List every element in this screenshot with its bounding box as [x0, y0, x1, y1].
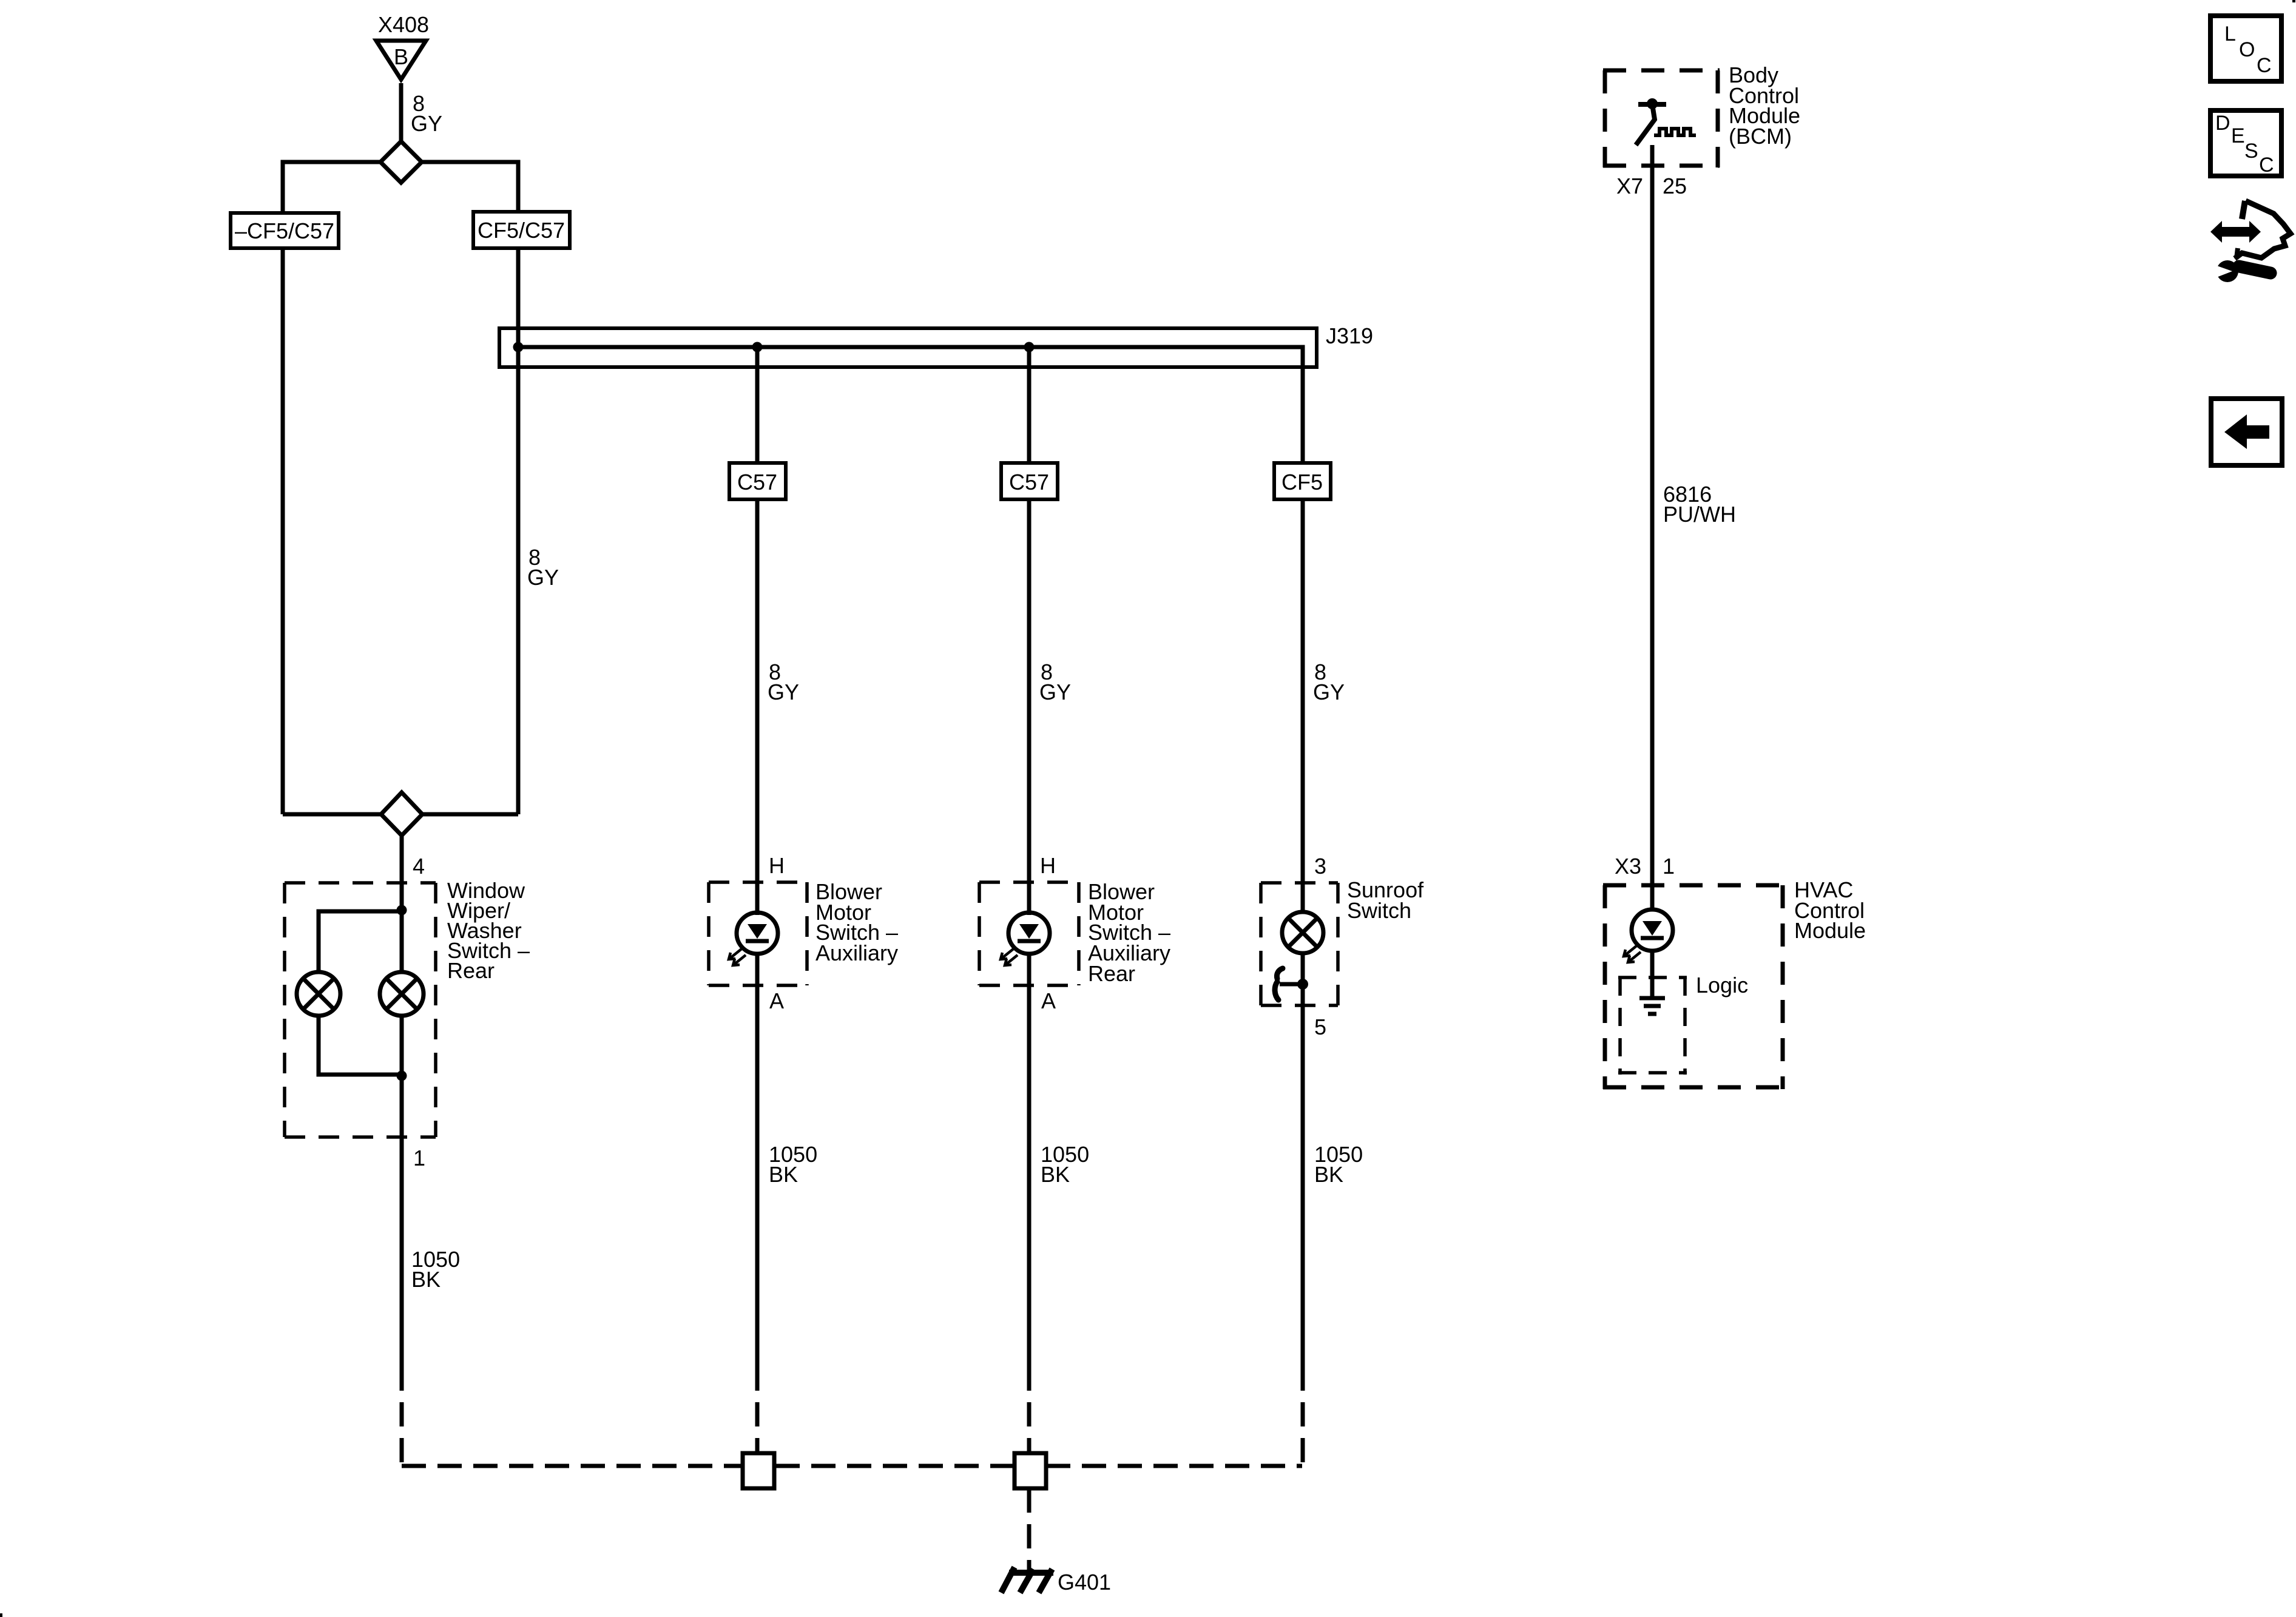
splice square ground bus 2 — [1015, 1453, 1046, 1488]
blower motor switch - auxiliary rear (dashed box) — [979, 882, 1079, 985]
svg-text:Auxiliary: Auxiliary — [815, 940, 898, 965]
splice J319 bus bar — [499, 328, 1317, 369]
svg-text:C: C — [2257, 54, 2272, 77]
ground G401 symbol — [1001, 1567, 1053, 1593]
connector CF5 (sunroof switch) — [1274, 463, 1331, 499]
label 1050 BK (branch 1) — [769, 1142, 817, 1187]
label 8 GY (branch 1) — [768, 660, 799, 704]
label 1050 BK (window wiper wire) — [411, 1247, 460, 1292]
svg-text:GY: GY — [1313, 680, 1345, 704]
connector X408 (triangle B) — [376, 12, 429, 79]
wire BCM to HVAC control module — [1650, 145, 1655, 911]
svg-text:–CF5/C57: –CF5/C57 — [235, 218, 334, 243]
svg-text:D: D — [2215, 112, 2230, 135]
sunroof switch (dashed box) — [1261, 883, 1338, 1005]
wire ground bus segment between squares — [775, 1464, 1013, 1468]
junction dot CF5/C57 wire at J319 — [513, 342, 524, 353]
svg-text:B: B — [394, 44, 408, 69]
svg-text:CF5: CF5 — [1281, 470, 1323, 495]
indicator LED (HVAC) — [1624, 910, 1673, 962]
svg-text:(BCM): (BCM) — [1729, 124, 1792, 149]
splice diamond upper — [380, 141, 422, 183]
label 8 GY (branch 2) — [1039, 660, 1071, 704]
svg-text:E: E — [2231, 124, 2245, 147]
svg-text:CF5/C57: CF5/C57 — [478, 218, 565, 243]
junction dot J319 branch 1 — [752, 342, 763, 353]
wire J319 to connector C57 branch 1 — [755, 347, 760, 463]
svg-text:C: C — [2259, 154, 2274, 177]
label 6816 PU/WH — [1663, 482, 1736, 527]
svg-text:L: L — [2224, 22, 2236, 46]
wire blower aux to ground bus (solid) — [755, 954, 760, 1391]
wire C57 to blower switch aux rear pin H — [1027, 499, 1032, 915]
body control module BCM (dashed box) — [1603, 70, 1720, 167]
svg-text:GY: GY — [768, 680, 799, 704]
BCM output driver symbol — [1636, 98, 1696, 145]
svg-text:BK: BK — [769, 1162, 798, 1187]
wire J319 to connector CF5 (sunroof) — [1301, 367, 1305, 463]
wire lower horizontal left — [283, 812, 383, 817]
wire C57 to blower switch aux pin H — [755, 499, 760, 915]
svg-text:C57: C57 — [737, 470, 777, 495]
wire blower aux rear to ground bus (solid) — [1027, 954, 1032, 1391]
svg-text:1: 1 — [1663, 854, 1675, 879]
svg-text:H: H — [769, 853, 785, 878]
svg-text:BK: BK — [1041, 1162, 1070, 1187]
svg-text:J319: J319 — [1326, 323, 1373, 348]
label 1050 BK (sunroof branch) — [1314, 1142, 1363, 1187]
DESC icon — [2210, 110, 2281, 177]
HVAC control module (dashed box) — [1603, 885, 1784, 1089]
svg-text:4: 4 — [413, 854, 425, 879]
wire lower horizontal right — [420, 812, 518, 817]
lamp window switch left — [297, 972, 340, 1016]
svg-text:25: 25 — [1663, 174, 1687, 198]
wire blower aux to ground bus (dashed) — [755, 1391, 760, 1453]
label 8 GY (sunroof branch) — [1313, 660, 1345, 704]
junction dot window switch top — [397, 905, 407, 916]
svg-text:3: 3 — [1314, 854, 1326, 879]
svg-text:5: 5 — [1314, 1014, 1326, 1039]
window wiper/washer switch - rear (dashed box) — [285, 883, 436, 1137]
svg-text:Switch: Switch — [1347, 898, 1411, 923]
label Window Wiper/Washer Switch - Rear — [447, 878, 530, 983]
wire lamp to junction (sunroof) — [1301, 953, 1305, 1034]
lamp (sunroof switch) — [1282, 912, 1323, 953]
label 8 GY on CF5/C57 wire — [527, 545, 559, 590]
svg-text:A: A — [1041, 988, 1056, 1013]
wire sunroof switch to ground bus (solid) — [1301, 1034, 1305, 1391]
svg-text:PU/WH: PU/WH — [1663, 502, 1736, 527]
svg-text:X3: X3 — [1615, 854, 1641, 879]
svg-text:O: O — [2239, 38, 2255, 61]
wire ground bus right segment — [1046, 1464, 1302, 1468]
label 1050 BK (branch 2) — [1041, 1142, 1089, 1187]
LOC icon — [2210, 16, 2281, 81]
svg-text:Module: Module — [1794, 918, 1866, 943]
wire window switch left branch lower — [319, 1016, 402, 1075]
svg-text:Rear: Rear — [447, 958, 495, 983]
blower motor switch - auxiliary (dashed box) — [709, 882, 807, 985]
label Blower Motor Switch - Auxiliary Rear — [1088, 879, 1170, 986]
connector C57 (blower motor switch - auxiliary) — [729, 463, 786, 499]
connector C57 (blower motor switch - auxiliary rear) — [1001, 463, 1058, 499]
label Sunroof Switch — [1347, 877, 1424, 923]
wire window switch right branch — [400, 911, 404, 974]
wire CF5/C57 down through J319 to lower splice — [516, 248, 521, 814]
junction dot window switch bottom — [397, 1071, 407, 1081]
wire upper splice to -CF5/C57 — [283, 162, 382, 212]
wire junction to switch actuator (sunroof) — [1280, 982, 1303, 987]
indicator LED (blower aux) — [729, 913, 778, 965]
wire X408 to upper splice — [399, 83, 403, 142]
svg-text:Rear: Rear — [1088, 961, 1135, 986]
wire CF5 to sunroof switch pin 3 — [1301, 499, 1305, 914]
svg-text:BK: BK — [1314, 1162, 1343, 1187]
wire LED to logic ground (HVAC) — [1650, 951, 1655, 998]
svg-text:1: 1 — [413, 1146, 425, 1170]
wire blower aux rear to ground bus (dashed) — [1027, 1391, 1032, 1453]
svg-text:X408: X408 — [378, 12, 429, 37]
svg-text:X7: X7 — [1616, 174, 1643, 198]
svg-text:C57: C57 — [1009, 470, 1049, 495]
svg-text:S: S — [2244, 140, 2258, 163]
svg-text:G401: G401 — [1058, 1570, 1111, 1595]
splice diamond lower — [381, 792, 422, 836]
wire (dashed) window switch to ground bus — [400, 1391, 404, 1466]
label HVAC Control Module — [1794, 877, 1866, 943]
wire window switch to pin 1 — [400, 1014, 404, 1391]
connector CF5/C57 — [473, 212, 570, 248]
label Blower Motor Switch - Auxiliary — [815, 879, 898, 965]
back arrow icon — [2211, 399, 2282, 465]
wire lower splice to window wiper switch — [400, 834, 404, 913]
ground symbol (HVAC logic) — [1639, 998, 1665, 1014]
connector view / tools icon — [2210, 201, 2291, 282]
label Body Control Module (BCM) — [1729, 62, 1800, 149]
svg-text:BK: BK — [411, 1267, 441, 1292]
connector -CF5/C57 — [231, 213, 339, 248]
wire -CF5/C57 down to lower splice — [281, 248, 285, 814]
indicator LED (blower aux rear) — [1001, 913, 1050, 965]
wire J319 to connector C57 branch 2 — [1027, 347, 1032, 463]
junction dot (sunroof switch) — [1297, 979, 1308, 990]
svg-text:Logic: Logic — [1696, 973, 1748, 998]
switch actuator symbol (sunroof) — [1275, 968, 1283, 1000]
svg-text:H: H — [1040, 853, 1056, 878]
wire sunroof switch to ground bus (dashed) — [1301, 1391, 1305, 1466]
svg-text:A: A — [769, 988, 784, 1013]
lamp window switch right — [380, 972, 424, 1016]
svg-text:GY: GY — [527, 565, 559, 590]
wire window switch left branch — [319, 911, 402, 972]
label 8 GY on X408 wire — [411, 91, 442, 136]
logic block (inner dashed box, HVAC) — [1618, 977, 1687, 1075]
wire splice square 2 to G401 (dashed) — [1027, 1488, 1032, 1570]
junction dot J319 branch 2 — [1024, 342, 1035, 353]
wire upper splice to CF5/C57 — [420, 162, 518, 212]
splice square ground bus 1 — [743, 1453, 774, 1488]
svg-text:GY: GY — [411, 111, 442, 136]
svg-text:GY: GY — [1039, 680, 1071, 704]
